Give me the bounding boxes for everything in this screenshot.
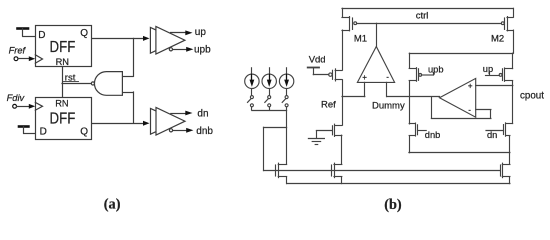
transistor Ref NMOS (316, 124, 341, 136)
svg-text:+: + (362, 73, 367, 82)
svg-text:dnb: dnb (425, 130, 441, 140)
svg-text:Q: Q (80, 28, 88, 39)
input Fref (9, 45, 36, 61)
transistor MN3 (right mirror) (501, 153, 510, 184)
wire left column (342, 8, 344, 70)
svg-text:D: D (40, 126, 47, 137)
svg-text:dnb: dnb (196, 126, 213, 137)
node rst label (64, 73, 79, 84)
transistor MN2 (mid mirror) (332, 135, 342, 183)
current source I2 (262, 68, 276, 89)
DFF U2 (bottom) (35, 98, 91, 140)
wire gate loop top (264, 127, 287, 129)
wire M2 drain to rail (513, 30, 515, 53)
svg-text:RN: RN (55, 98, 68, 108)
wire upb source (409, 53, 411, 68)
wire gate bus (264, 170, 501, 172)
buffer pair U4 (up/upb) (143, 26, 193, 54)
wire cpout column (512, 81, 514, 124)
wire NAND bottom input vertical (133, 92, 135, 123)
input Fdiv (7, 93, 36, 109)
power symbol (top DFF D input) (18, 29, 36, 37)
DFF U1 (top) (35, 26, 91, 68)
transistor dn NMOS (486, 123, 513, 153)
svg-text:D: D (38, 30, 45, 41)
svg-text:Fref: Fref (9, 45, 27, 55)
current source I1 (245, 68, 259, 89)
transistor MN1 (left mirror) (276, 163, 287, 183)
svg-text:ctrl: ctrl (416, 11, 429, 22)
svg-text:DFF: DFF (50, 39, 76, 56)
power Vdd symbol (308, 55, 326, 75)
power symbol (bottom DFF D input) (19, 127, 35, 134)
wire mirror drain column (286, 107, 288, 164)
wire feedback right (490, 110, 492, 119)
svg-text:dn: dn (197, 108, 208, 119)
wire source rail y53 (409, 53, 513, 55)
svg-text:DFF: DFF (50, 111, 76, 128)
wire top rail (342, 8, 513, 10)
wire Q top to buffer (91, 38, 144, 40)
svg-text:upb: upb (194, 45, 211, 56)
svg-text:RN: RN (56, 57, 69, 67)
svg-text:M1: M1 (354, 33, 367, 44)
buffer pair U5 (dn/dnb) (143, 107, 193, 135)
svg-text:-: - (468, 105, 471, 114)
switch S1 (248, 89, 254, 110)
switch S3 (282, 89, 288, 107)
svg-text:(b): (b) (384, 197, 402, 213)
svg-text:Q: Q (80, 126, 88, 137)
svg-text:Ref: Ref (321, 100, 336, 111)
svg-text:upb: upb (428, 65, 444, 75)
svg-text:dn: dn (487, 130, 497, 140)
transistor dnb NMOS (409, 123, 426, 153)
svg-text:M2: M2 (491, 33, 504, 44)
wire Ref column (342, 80, 344, 125)
wire Q bottom to buffer (91, 123, 144, 125)
wire dn/dnb source bus (409, 152, 510, 154)
transistor up PMOS (486, 68, 513, 81)
transistor M1 (342, 17, 501, 31)
switch S2 (265, 89, 271, 110)
op-amp U1 (dummy buffer) (357, 23, 394, 96)
ground (308, 131, 324, 145)
transistor Vdd switch PMOS (313, 69, 342, 81)
wire feedback left (431, 97, 433, 119)
svg-text:Dummy: Dummy (372, 100, 405, 111)
svg-text:Fdiv: Fdiv (7, 93, 26, 103)
wire rst vertical (62, 66, 64, 97)
wire dummy node vertical (409, 81, 411, 124)
transistor upb PMOS (409, 68, 433, 82)
wire op-amp1 plus input (342, 96, 365, 98)
svg-text:-: - (386, 73, 389, 82)
wire dummy node horizontal (387, 96, 440, 98)
wire bottom rail (287, 183, 510, 185)
wire up source to rail (512, 53, 514, 68)
wire minus input (476, 109, 491, 111)
wire feedback bottom (431, 118, 491, 120)
NAND U3 (91, 72, 122, 96)
transistor M2 (501, 8, 513, 31)
wire NAND bottom input stub (122, 92, 133, 94)
wire switch bus (252, 110, 287, 112)
svg-text:cpout: cpout (520, 90, 544, 101)
svg-text:Vdd: Vdd (309, 55, 326, 66)
wire NAND top input vertical (133, 38, 135, 76)
svg-text:up: up (483, 64, 493, 74)
wire gate loop left (263, 127, 265, 170)
current source I3 (279, 68, 293, 89)
op-amp U2 (unity buffer) (440, 78, 476, 117)
svg-text:(a): (a) (104, 197, 121, 213)
svg-text:up: up (195, 27, 207, 38)
wire plus input to cpout (476, 85, 513, 87)
svg-text:+: + (468, 82, 473, 91)
wire NAND top input stub (122, 76, 133, 78)
wire rst horizontal (62, 83, 91, 85)
